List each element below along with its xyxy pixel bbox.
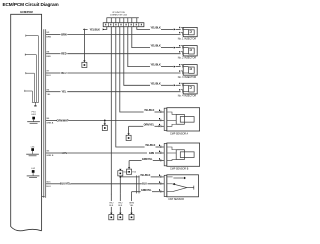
svg-text:YEL/BLK: YEL/BLK: [145, 144, 156, 147]
svg-text:G101: G101: [31, 114, 37, 116]
svg-text:ECM/PCM: ECM/PCM: [20, 10, 32, 14]
svg-text:BRN: BRN: [61, 33, 67, 36]
svg-text:BLU: BLU: [142, 183, 147, 186]
svg-text:No. 1 INJECTOR: No. 1 INJECTOR: [178, 37, 197, 40]
svg-text:No. 4 INJECTOR: No. 4 INJECTOR: [178, 95, 197, 98]
svg-text:CMP SENSOR A: CMP SENSOR A: [170, 132, 189, 135]
svg-text:YEL/BLK: YEL/BLK: [144, 109, 155, 112]
svg-text:YEL/BLK: YEL/BLK: [150, 27, 161, 30]
svg-text:BLK: BLK: [118, 205, 122, 207]
svg-text:E14: E14: [133, 171, 136, 173]
svg-text:YEL/BLK: YEL/BLK: [150, 64, 161, 67]
svg-text:YEL/BLK: YEL/BLK: [150, 45, 161, 48]
svg-text:GRN A: GRN A: [46, 122, 53, 125]
svg-text:YEL: YEL: [61, 91, 66, 94]
svg-text:BLU/YEL: BLU/YEL: [60, 183, 71, 186]
svg-text:YEL/BLK: YEL/BLK: [90, 28, 101, 31]
svg-text:GRN/WHT: GRN/WHT: [57, 119, 69, 122]
svg-text:BLU: BLU: [46, 186, 51, 188]
svg-text:ORN/YEL: ORN/YEL: [144, 124, 155, 127]
svg-text:GRN/YEL: GRN/YEL: [142, 158, 153, 161]
svg-text:GRN B: GRN B: [46, 155, 53, 157]
svg-text:BRN: BRN: [46, 37, 51, 39]
svg-text:No. 2 INJECTOR: No. 2 INJECTOR: [178, 57, 197, 60]
svg-text:CKP SENSOR: CKP SENSOR: [168, 198, 184, 201]
svg-text:YEL/BLK: YEL/BLK: [140, 174, 151, 177]
svg-text:ECM/PCM Circuit Diagram: ECM/PCM Circuit Diagram: [3, 2, 59, 7]
svg-text:BLK: BLK: [109, 205, 113, 207]
svg-text:RED: RED: [61, 53, 66, 56]
svg-text:GRN: GRN: [61, 152, 67, 155]
svg-text:CMP SENSOR B: CMP SENSOR B: [170, 168, 189, 171]
svg-text:YEL/BLK: YEL/BLK: [150, 82, 161, 85]
svg-text:BLU: BLU: [46, 75, 51, 77]
svg-text:GRN: GRN: [149, 152, 155, 155]
svg-text:RED: RED: [46, 56, 51, 58]
svg-text:BLU: BLU: [61, 72, 66, 75]
svg-text:CONNECTOR C525: CONNECTOR C525: [110, 14, 127, 16]
svg-text:GRN/YEL: GRN/YEL: [141, 189, 152, 192]
svg-text:C104: C104: [123, 172, 128, 174]
svg-text:No. 3 INJECTOR: No. 3 INJECTOR: [178, 76, 197, 79]
